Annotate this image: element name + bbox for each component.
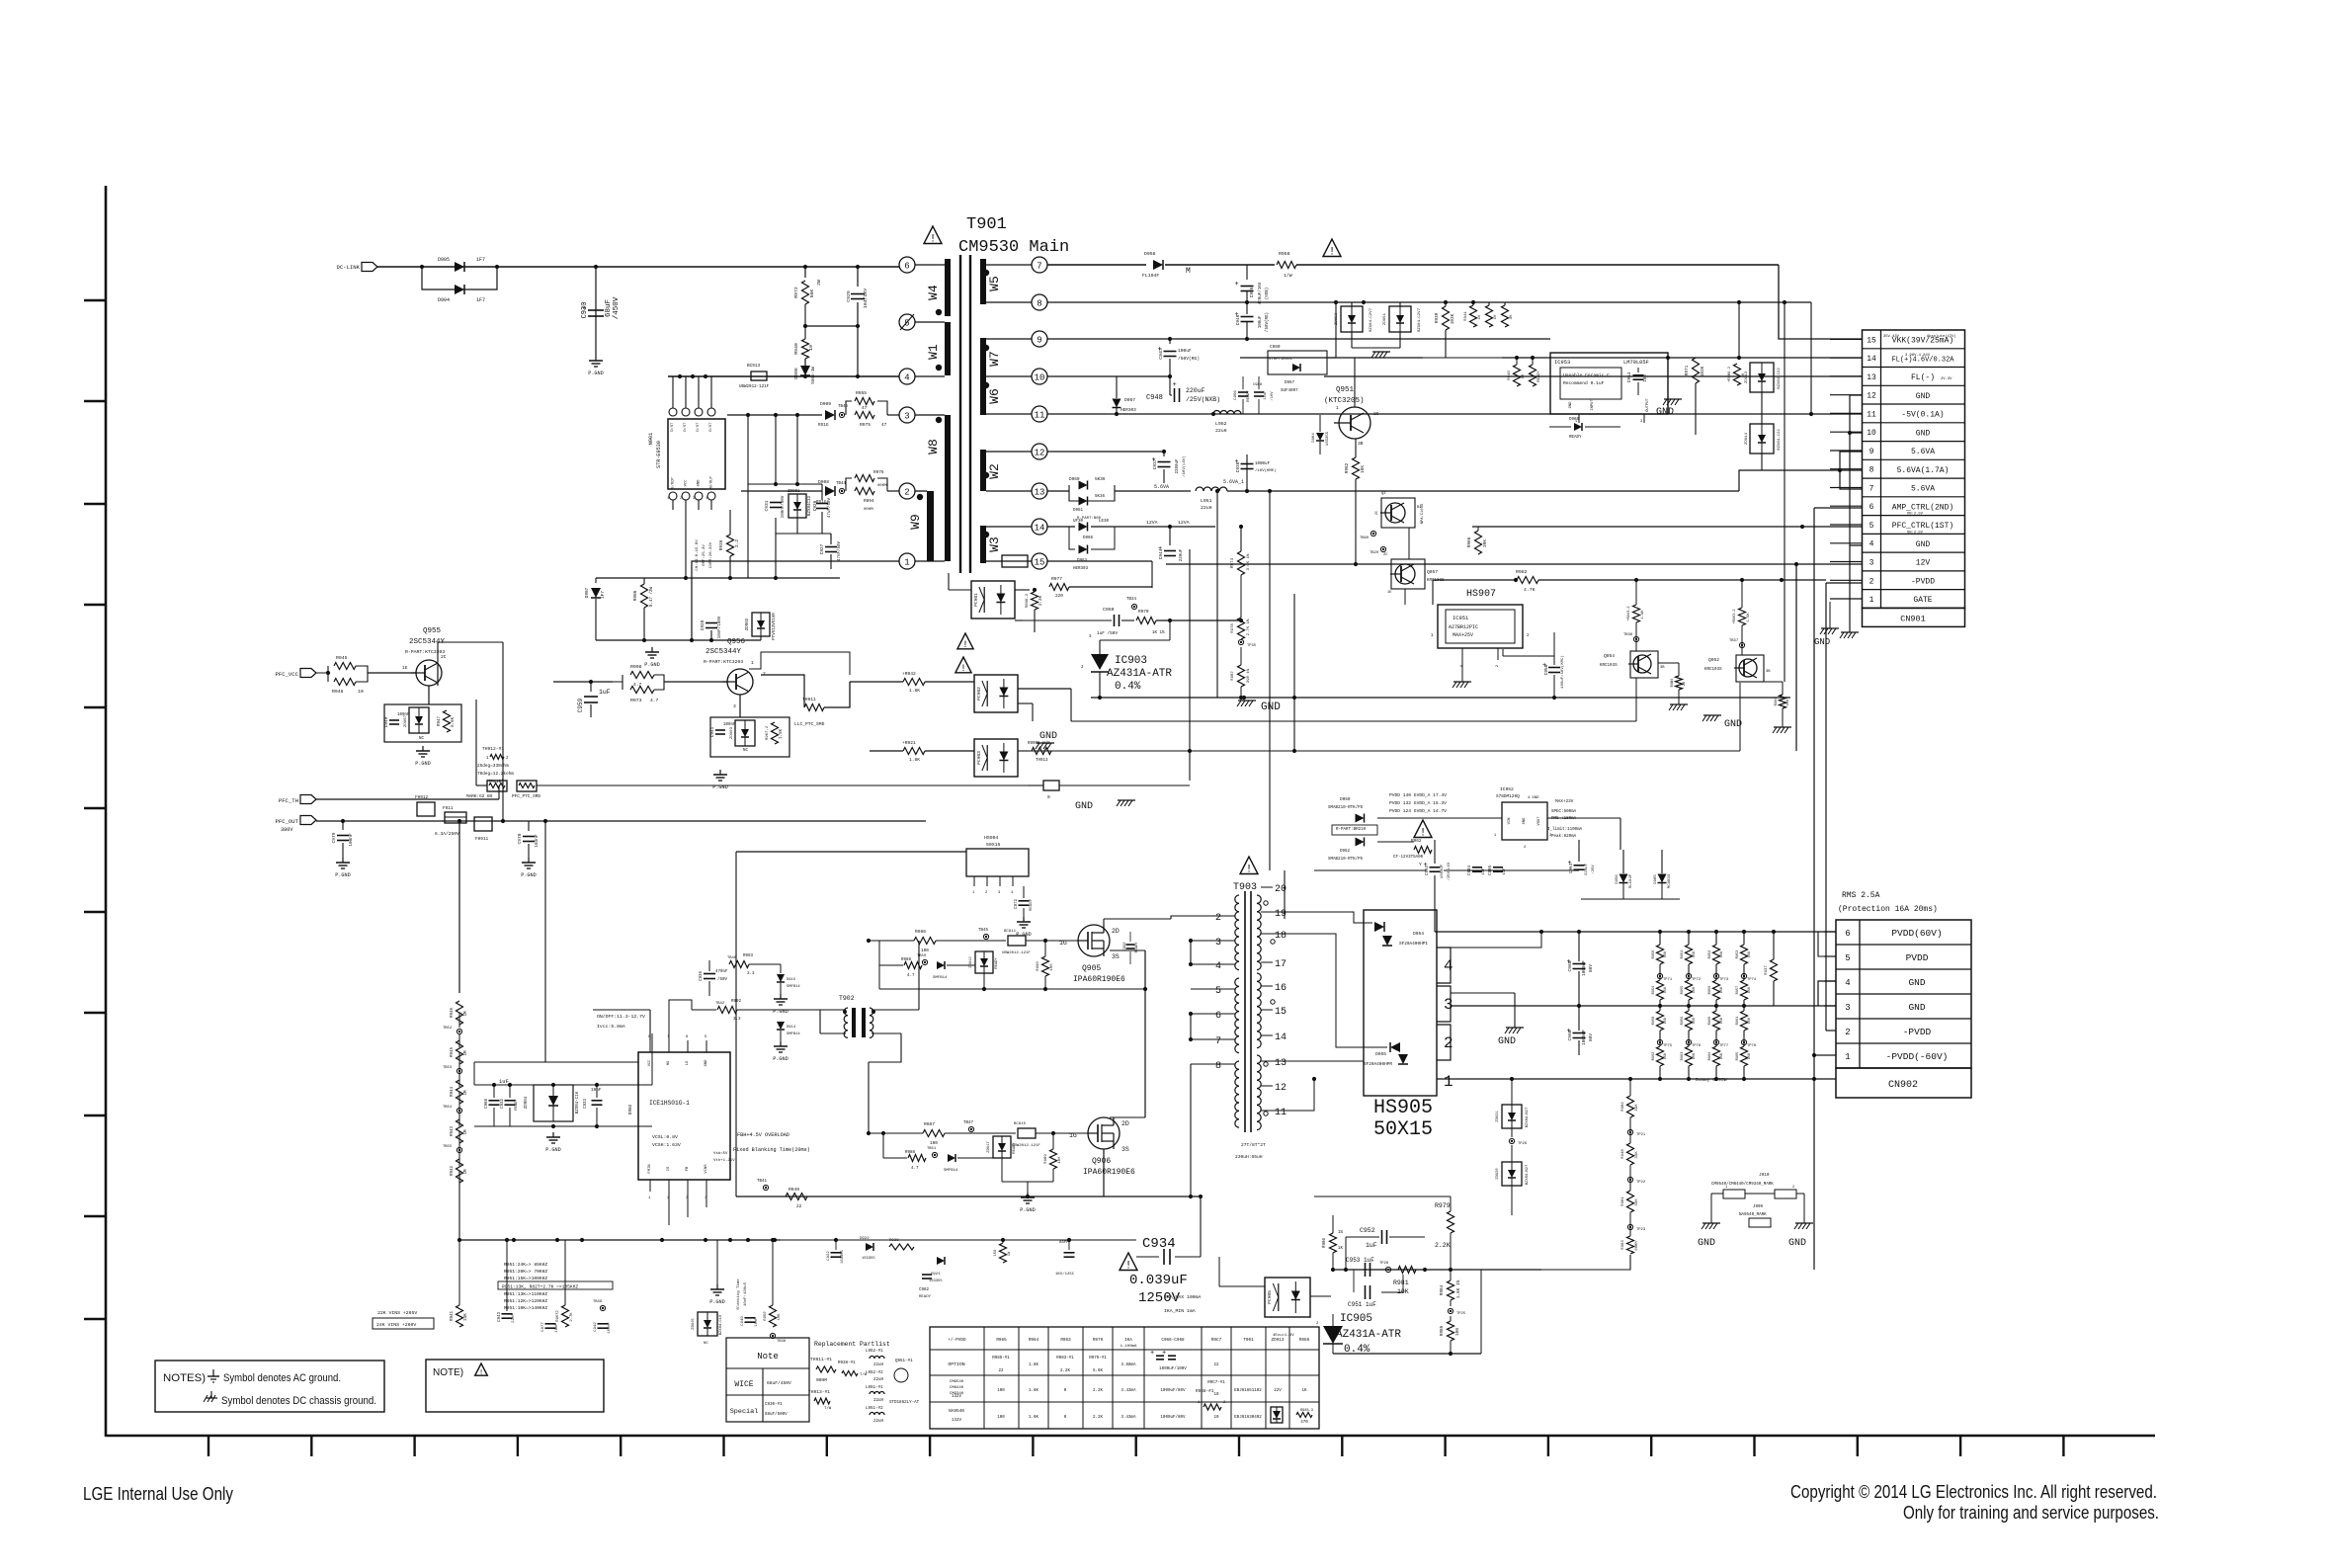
svg-text:D967: D967	[1124, 397, 1135, 403]
connector CN901 frame	[1863, 330, 1965, 608]
svg-text:D966: D966	[1083, 536, 1094, 540]
resistor bank col3d	[1713, 1046, 1720, 1066]
svg-text:1: 1	[667, 497, 669, 501]
svg-text:GND: GND	[1814, 637, 1830, 647]
test point TB60	[1370, 531, 1375, 536]
svg-text:NOTES): NOTES)	[163, 1372, 206, 1384]
svg-text:22uH: 22uH	[873, 1420, 884, 1424]
svg-text:TB37: TB37	[1729, 639, 1738, 643]
shunt regulator IC903	[1091, 654, 1109, 670]
thermistor TH912	[487, 781, 507, 791]
svg-text:103: 103	[1644, 374, 1648, 382]
svg-text:BZX84C33: BZX84C33	[808, 495, 812, 516]
svg-text:D951: D951	[1073, 509, 1084, 513]
svg-text:ZD921: ZD921	[1496, 1111, 1500, 1122]
svg-text:D959: D959	[1340, 797, 1351, 802]
transistor Q906	[1088, 1117, 1120, 1149]
svg-text:15K: 15K	[1720, 986, 1724, 993]
svg-text:TP78: TP78	[1747, 1044, 1757, 1048]
svg-text:C950: C950	[1103, 607, 1115, 613]
svg-text:PC902: PC902	[976, 687, 982, 701]
svg-text:2W: 2W	[816, 280, 822, 286]
wire top mid vert	[849, 682, 851, 707]
zener ZD917	[993, 1136, 1011, 1158]
svg-text:R964: R964	[1708, 1052, 1712, 1061]
svg-text:VIN: VIN	[1508, 818, 1512, 825]
svg-text:R958: R958	[1652, 1017, 1656, 1026]
svg-text:GND: GND	[1498, 1036, 1516, 1047]
resistor bank col1b	[1657, 980, 1664, 1000]
svg-text:PFC_CTRL(1ST): PFC_CTRL(1ST)	[1892, 522, 1953, 531]
svg-text:FB: FB	[686, 1166, 690, 1171]
svg-text:R975: R975	[860, 422, 871, 428]
test point TB53	[457, 1068, 461, 1073]
svg-text:/16V(LXV): /16V(LXV)	[1182, 455, 1187, 477]
svg-text:2: 2	[1444, 1034, 1453, 1052]
svg-text:2C: 2C	[441, 654, 447, 660]
wire q905 drain	[1103, 919, 1105, 925]
svg-text:EBJ61630402: EBJ61630402	[1234, 1416, 1262, 1420]
svg-text:R939: R939	[1435, 312, 1440, 323]
svg-text:P.GND: P.GND	[415, 761, 431, 767]
resistor R952	[562, 1305, 569, 1327]
svg-text:R946: R946	[451, 1007, 455, 1018]
svg-text:100nF: 100nF	[723, 723, 736, 727]
svg-text:SMAB210-RTK/PS: SMAB210-RTK/PS	[1328, 857, 1364, 862]
svg-text:BZX84-B27: BZX84-B27	[1526, 1165, 1530, 1186]
svg-text:8: 8	[1869, 466, 1874, 475]
resistor bank col3a	[1713, 945, 1720, 964]
test point TB47	[968, 1126, 973, 1131]
svg-text:1.8K 1%: 1.8K 1%	[1456, 1279, 1461, 1298]
wire bottom rail	[459, 1239, 781, 1241]
T901 winding W9	[927, 491, 934, 561]
HS905 pin 4	[1437, 948, 1451, 983]
thermistor TH911	[804, 704, 824, 711]
svg-text:C927: C927	[820, 543, 825, 554]
IC951 pins	[1461, 648, 1463, 660]
diode D960	[1079, 481, 1088, 490]
ground GND j910	[1710, 1194, 1712, 1223]
resistor R992	[717, 1007, 737, 1014]
transistor Q952	[1736, 655, 1764, 682]
wire d902 hg	[669, 1000, 692, 1040]
resistor R9905	[1018, 750, 1030, 752]
svg-text:!: !	[479, 1369, 484, 1377]
capacitor C952	[1345, 1237, 1347, 1270]
svg-text:15K: 15K	[1693, 1052, 1697, 1059]
svg-text:CS: CS	[667, 1166, 671, 1171]
svg-text:/16V(KME): /16V(KME)	[1255, 468, 1277, 473]
svg-text:R9C7: R9C7	[1211, 1338, 1222, 1343]
svg-text:GND: GND	[1523, 817, 1527, 825]
svg-text:9: 9	[1037, 336, 1041, 346]
svg-text:7: 7	[1037, 262, 1041, 272]
svg-text:EBJ61651102: EBJ61651102	[1234, 1389, 1262, 1393]
zener ZD912	[975, 951, 993, 973]
svg-text:1uF: 1uF	[1482, 867, 1486, 875]
svg-text:(KTC3205): (KTC3205)	[1324, 397, 1365, 405]
D902 top pin 7	[668, 1040, 670, 1052]
svg-text:J909: J909	[1753, 1205, 1764, 1209]
svg-text:GND: GND	[698, 479, 702, 487]
ground P.GND d914	[780, 1041, 782, 1046]
svg-text:8: 8	[1037, 299, 1041, 309]
wire CN901 stub	[1830, 487, 1862, 489]
svg-text:WICE: WICE	[734, 1380, 753, 1389]
svg-text:10: 10	[1213, 1393, 1219, 1397]
resistor R941	[1470, 305, 1477, 327]
svg-text:10nF: 10nF	[555, 1323, 559, 1333]
svg-text:1000uF/80V: 1000uF/80V	[1160, 1415, 1186, 1420]
svg-text:Recommend 0.1uF: Recommend 0.1uF	[1563, 380, 1605, 386]
svg-text:IC903: IC903	[1115, 655, 1147, 667]
svg-text:R953: R953	[1736, 950, 1740, 959]
wire gnd rail mid2	[1071, 720, 1636, 722]
wire dclink	[377, 266, 899, 268]
svg-text:C992: C992	[1123, 942, 1127, 951]
capacitor C940	[745, 1317, 756, 1319]
N901 bottom pin 3 GND	[695, 492, 703, 500]
svg-text:C941: C941	[710, 726, 715, 737]
svg-text:+R9B9-2: +R9B9-2	[1728, 366, 1732, 382]
svg-text:15K: 15K	[1720, 950, 1724, 957]
border ruler bottom	[106, 1435, 2155, 1438]
wire pin2	[741, 490, 822, 492]
svg-text:BZX84-C2V7: BZX84-C2V7	[1418, 307, 1422, 332]
svg-text:5.6VA: 5.6VA	[1911, 448, 1935, 456]
svg-text:IC905: IC905	[1340, 1313, 1372, 1325]
svg-text:3: 3	[693, 497, 695, 501]
svg-text:R9C7-#1: R9C7-#1	[1207, 1381, 1225, 1385]
svg-text:PTVS13VS1UR: PTVS13VS1UR	[773, 613, 777, 640]
capacitor C982	[922, 1274, 932, 1276]
diode D966	[1079, 523, 1088, 532]
svg-text:/16V: /16V	[1270, 391, 1275, 401]
svg-text:24K: 24K	[464, 1313, 468, 1321]
svg-text:4 GND: 4 GND	[1528, 796, 1539, 800]
capacitor C942	[598, 1323, 609, 1325]
wire top right vert3	[1810, 302, 1812, 414]
svg-text:R974: R974	[1231, 557, 1235, 568]
test point TB34	[1131, 604, 1136, 609]
capacitor C963	[1430, 867, 1441, 868]
test point TB45b	[983, 934, 988, 939]
svg-text:1: 1	[1845, 1052, 1850, 1062]
resistor R990	[1042, 956, 1049, 976]
diode D905	[455, 262, 464, 272]
warning triangle a	[957, 633, 973, 649]
svg-text:HER303: HER303	[1121, 408, 1136, 413]
resistor R976	[846, 478, 852, 491]
svg-text:R963: R963	[1681, 1052, 1685, 1061]
capacitor C926	[816, 503, 828, 505]
wire top right vert2	[1738, 302, 1740, 358]
svg-text:N901: N901	[648, 433, 654, 445]
svg-text:P.GND: P.GND	[644, 662, 660, 668]
svg-text:Absolute(47V): Absolute(47V)	[1927, 334, 1956, 339]
svg-text:BC915: BC915	[1014, 1122, 1027, 1126]
wire pvdd trunk	[1444, 869, 1579, 871]
svg-text:F911: F911	[443, 806, 454, 811]
svg-text:VCC: VCC	[648, 1059, 652, 1067]
svg-text:TP21: TP21	[1636, 1133, 1646, 1137]
svg-text:47uF/50V: 47uF/50V	[827, 497, 832, 518]
svg-text:4.7K: 4.7K	[1524, 587, 1536, 593]
wire pc905	[1219, 1285, 1265, 1287]
svg-text:15K: 15K	[1748, 986, 1752, 993]
resistor R946	[457, 1001, 463, 1025]
svg-text:BZX84-C2V7: BZX84-C2V7	[1370, 307, 1373, 332]
svg-text:1M: 1M	[464, 1050, 468, 1056]
svg-text:14: 14	[1867, 355, 1876, 364]
svg-text:CN:13.8-15.8V: CN:13.8-15.8V	[696, 539, 700, 571]
svg-text:L951-#1: L951-#1	[866, 1386, 883, 1390]
optocoupler PC901	[971, 581, 1015, 619]
svg-text:D/ST: D/ST	[696, 422, 701, 432]
svg-text:Q955: Q955	[423, 627, 442, 635]
svg-text:2.2K: 2.2K	[1093, 1389, 1104, 1393]
svg-text:1F7: 1F7	[601, 591, 606, 599]
svg-text:W3: W3	[987, 536, 1002, 552]
svg-text:P.GND: P.GND	[545, 1147, 561, 1153]
svg-text:BZX84-C22: BZX84-C22	[1778, 368, 1782, 389]
svg-text:D921: D921	[931, 1273, 941, 1277]
svg-text:2: 2	[904, 488, 909, 498]
svg-text:Useable Ceramic C: Useable Ceramic C	[1563, 372, 1610, 378]
resistor R988a	[904, 962, 922, 969]
svg-text:2: 2	[1845, 1028, 1850, 1037]
wire rail low1	[1018, 750, 1740, 752]
svg-text:10K: 10K	[1058, 1156, 1062, 1164]
wire rail8	[1047, 301, 1811, 303]
diode D914	[777, 1022, 785, 1030]
N901 top pin 8	[669, 408, 677, 416]
svg-text:Q951-#1: Q951-#1	[895, 1360, 913, 1363]
transistor Q953	[1381, 498, 1415, 528]
svg-text:SMAB210-RTK/PS: SMAB210-RTK/PS	[1328, 805, 1364, 810]
capacitor C959	[590, 682, 592, 692]
diode D957 snubber	[1268, 351, 1327, 374]
resistor R982q	[1353, 457, 1360, 479]
svg-text:READY: READY	[1569, 436, 1582, 440]
svg-text:/50V(RG): /50V(RG)	[1265, 312, 1270, 332]
svg-text:Q951: Q951	[1336, 386, 1355, 394]
svg-text:TH912-#1: TH912-#1	[482, 746, 504, 752]
svg-text:S/OCP: S/OCP	[671, 477, 676, 489]
capacitor C958	[1548, 667, 1560, 669]
svg-text:R951:13K, R827+2.7K =>105KHZ: R951:13K, R827+2.7K =>105KHZ	[502, 1284, 578, 1290]
svg-text:15K: 15K	[1748, 950, 1752, 957]
svg-text:+: +	[1235, 281, 1239, 289]
resistor R982g	[1517, 577, 1538, 584]
ferrite bead BC913	[751, 371, 767, 380]
svg-text:NA9540_MARK: NA9540_MARK	[1739, 1213, 1767, 1217]
transistor Q951	[1339, 407, 1370, 439]
thermistor TH913	[1043, 781, 1059, 790]
svg-text:80V: 80V	[1589, 1033, 1594, 1041]
svg-text:1SS355: 1SS355	[1326, 431, 1330, 446]
T901 pin 14	[1032, 519, 1047, 535]
svg-text:RMS 2.5A: RMS 2.5A	[1842, 891, 1880, 900]
svg-text:R982: R982	[1345, 462, 1350, 473]
svg-text:D954: D954	[1413, 931, 1424, 937]
svg-text:3B: 3B	[1660, 666, 1665, 670]
svg-text:READY: READY	[995, 957, 999, 969]
svg-text:KRC103S: KRC103S	[1704, 668, 1722, 672]
svg-text:READY: READY	[1013, 1142, 1017, 1154]
svg-text:103/1KV: 103/1KV	[863, 289, 869, 308]
svg-text:NC: NC	[704, 1342, 708, 1346]
svg-text:1W: 1W	[1008, 1251, 1012, 1256]
test point TP21	[1627, 1129, 1632, 1134]
svg-text:47: 47	[862, 406, 868, 411]
capacitor C988	[1254, 391, 1264, 393]
svg-text:R967-2: R967-2	[766, 725, 770, 740]
svg-text:6: 6	[1215, 1011, 1221, 1022]
svg-text:R-PART:BR210: R-PART:BR210	[1336, 828, 1367, 832]
testpoint TP73	[1713, 973, 1718, 978]
svg-text:NPA/C103S: NPA/C103S	[1420, 503, 1425, 524]
wire CN901 stub	[1830, 524, 1862, 526]
ferrite bead BC911	[1008, 936, 1026, 946]
svg-text:1000uF: 1000uF	[1582, 1030, 1587, 1045]
N901 top pin 7	[682, 408, 690, 416]
svg-text:3K: 3K	[1510, 314, 1514, 319]
svg-text:R896-2: R896-2	[1026, 593, 1030, 608]
svg-text:TB52: TB52	[443, 1027, 453, 1031]
svg-text:/50V: /50V	[717, 977, 728, 982]
svg-text:R976: R976	[873, 470, 884, 475]
svg-text:220uF: 220uF	[1186, 387, 1205, 394]
svg-text:1K 1%: 1K 1%	[1152, 631, 1165, 635]
svg-text:R941: R941	[451, 1310, 455, 1321]
capacitor C981	[1064, 1252, 1075, 1254]
warning triangle near T901	[924, 226, 942, 244]
wire vert mid2	[1284, 870, 1286, 919]
svg-text:C949: C949	[384, 716, 389, 727]
svg-text:4.7: 4.7	[907, 974, 915, 978]
thermistor TH914	[517, 781, 537, 791]
svg-text:ZD915: ZD915	[692, 1318, 696, 1330]
zener ZD901	[789, 494, 806, 518]
svg-text:P.GND: P.GND	[712, 784, 728, 790]
svg-text:A27BR12PIC: A27BR12PIC	[1449, 624, 1478, 630]
svg-text:R9B7: R9B7	[1231, 671, 1235, 681]
svg-text:68uF/450V: 68uF/450V	[767, 1380, 791, 1386]
resistor bank col1a	[1657, 945, 1664, 964]
resistor R993	[729, 961, 749, 968]
wire cn9 bracket	[1840, 452, 1862, 489]
svg-text:IPA60R190E6: IPA60R190E6	[1083, 1168, 1135, 1177]
svg-text:100: 100	[930, 1141, 938, 1146]
svg-text:15K: 15K	[1720, 1052, 1724, 1059]
svg-text:R952: R952	[1708, 950, 1712, 959]
wire cn6 rail	[1814, 507, 1862, 509]
svg-text:TH913-#1: TH913-#1	[808, 1389, 830, 1395]
resistor R946	[327, 673, 329, 682]
svg-text:1: 1	[1336, 405, 1339, 411]
svg-text:R9672: R9672	[556, 1310, 560, 1322]
svg-text:2.2K: 2.2K	[1093, 1416, 1104, 1420]
svg-text:R894: R894	[864, 499, 874, 504]
svg-text:1.5K: 1.5K	[1747, 613, 1751, 622]
T901 pin 1	[899, 553, 915, 569]
svg-text:Copyright © 2014 LG Electronic: Copyright © 2014 LG Electronics Inc. All…	[1790, 1481, 2157, 1502]
warning triangle top right	[1323, 239, 1341, 257]
svg-text:ZD920: ZD920	[1496, 1168, 1500, 1180]
T901 pin 13	[1032, 483, 1047, 499]
svg-text:10nF: 10nF	[591, 1088, 602, 1093]
svg-text:W4: W4	[926, 285, 941, 300]
svg-text:3.43mA: 3.43mA	[1121, 1416, 1136, 1420]
wire pfcvcc	[368, 672, 416, 674]
wire cn13 rail	[1324, 375, 1862, 377]
test point TB38	[770, 1333, 775, 1338]
note box 2	[426, 1360, 604, 1412]
svg-text:CM9540/CM8440/CM9340_MARK: CM9540/CM8440/CM9340_MARK	[1711, 1182, 1774, 1187]
resistor R958	[1277, 262, 1296, 269]
svg-text:33K: 33K	[1635, 1104, 1639, 1112]
T901 W1 dot	[936, 365, 942, 371]
connector CN901 label	[1863, 608, 1965, 626]
svg-text:SU6S-1W: SU6S-1W	[812, 367, 816, 384]
wire cn902 gnd	[1818, 981, 1836, 1006]
svg-text:10nF: 10nF	[755, 1317, 759, 1327]
svg-text:ON:2.5V: ON:2.5V	[1907, 531, 1924, 535]
wire CN901 stub	[1830, 412, 1862, 414]
svg-text:10: 10	[1035, 373, 1045, 383]
resistor R978	[1238, 618, 1245, 639]
resistor bank col1d	[1657, 1046, 1664, 1066]
test point TB55	[457, 1147, 461, 1152]
capacitor C931	[685, 510, 687, 578]
resistor R987m	[923, 1130, 945, 1137]
svg-text:FL(-): FL(-)	[1911, 373, 1935, 382]
svg-text:R998: R998	[630, 664, 642, 670]
svg-text:R980: R980	[1323, 1237, 1327, 1248]
resistor R988b	[908, 1155, 926, 1162]
wire CN901 stub	[1830, 375, 1862, 377]
svg-text:230uH:65uH: 230uH:65uH	[1235, 1154, 1263, 1160]
svg-text:D956: D956	[1616, 874, 1619, 884]
svg-text:1uF: 1uF	[599, 689, 611, 696]
ground P.GND hs904	[1023, 917, 1025, 922]
svg-text:R986: R986	[915, 929, 926, 935]
svg-text:!: !	[960, 663, 966, 674]
capacitor C947	[1169, 339, 1171, 344]
D902 bottom pin 1	[649, 1180, 651, 1192]
svg-text:3B: 3B	[1358, 441, 1364, 447]
diode D932	[937, 961, 945, 969]
svg-text:READY: READY	[1030, 898, 1034, 911]
N901 bottom pin 1 S/OCP	[669, 492, 677, 500]
svg-text:1M: 1M	[464, 1011, 468, 1017]
warning triangle bottom	[1120, 1253, 1137, 1271]
svg-text:18: 18	[1275, 931, 1287, 942]
svg-text:22uH: 22uH	[873, 1363, 884, 1367]
IC N901 STR-E9530	[668, 419, 725, 489]
svg-text:15K: 15K	[1664, 986, 1668, 993]
resistor R981	[1398, 1267, 1416, 1274]
svg-text:R989: R989	[1044, 1154, 1048, 1164]
resistor R973	[622, 682, 623, 690]
svg-text:!: !	[1125, 1261, 1132, 1273]
svg-text:Q906: Q906	[1092, 1157, 1111, 1166]
svg-text:1E: 1E	[402, 665, 408, 671]
svg-text:D902: D902	[628, 1104, 633, 1114]
svg-text:3: 3	[1215, 938, 1221, 949]
